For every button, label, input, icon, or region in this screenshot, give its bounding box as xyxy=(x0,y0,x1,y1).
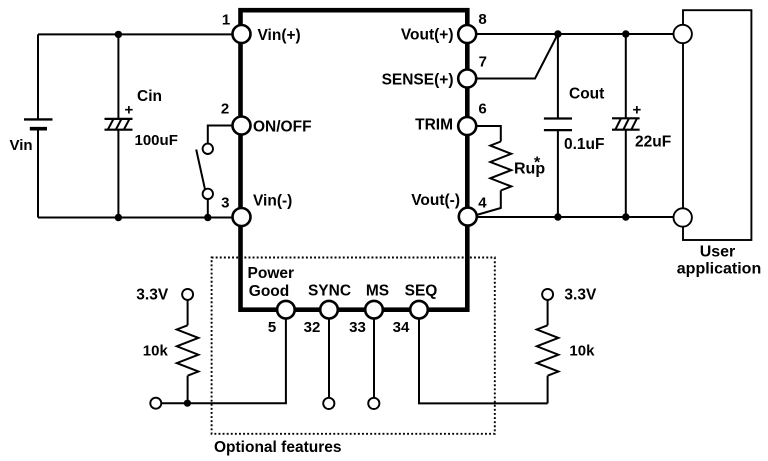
terminal Power Good output xyxy=(150,398,161,409)
capacitor Cout xyxy=(544,119,572,131)
pin 5 Power Good xyxy=(277,301,295,319)
node junction Cin top xyxy=(115,31,122,38)
label Power Good xyxy=(248,265,295,300)
node junction Cout top xyxy=(554,30,561,37)
wire battery bottom segment xyxy=(37,129,39,218)
terminal user application Vout+ xyxy=(674,25,692,43)
pin 6 TRIM xyxy=(458,117,476,135)
svg-text:+: + xyxy=(125,102,134,119)
wire resistor left to junction xyxy=(187,376,189,404)
label Optional features xyxy=(214,439,341,456)
label Vin xyxy=(10,137,33,154)
pin number 33 xyxy=(349,319,366,336)
wire 3.3V to resistor left xyxy=(187,300,189,325)
svg-text:2: 2 xyxy=(221,101,229,118)
terminal 3.3V right xyxy=(542,289,553,300)
wire switch to bottom rail xyxy=(207,199,209,217)
wire Cin bottom segment xyxy=(117,130,119,218)
optional features dashed box xyxy=(212,258,495,434)
module U1 outline xyxy=(241,10,468,310)
svg-text:Vin(+): Vin(+) xyxy=(258,27,301,44)
wire top rail left (Vin+ net) xyxy=(38,33,233,35)
wire bottom rail right (Vout- net) xyxy=(477,216,674,218)
wire ON/OFF to switch xyxy=(208,126,233,144)
label Vout(-) xyxy=(411,192,460,209)
node junction Cin bottom xyxy=(115,214,122,221)
pin number 4 xyxy=(478,195,487,212)
pin number 8 xyxy=(478,11,486,28)
resistor R2 10k right xyxy=(537,325,559,375)
label Cin xyxy=(137,88,162,105)
svg-text:100uF: 100uF xyxy=(135,132,178,149)
label Cout value 0.1uF xyxy=(564,136,604,153)
label Rup asterisk xyxy=(534,155,541,172)
label MS xyxy=(366,283,389,300)
svg-text:3.3V: 3.3V xyxy=(564,287,597,304)
wire 22uF bottom segment xyxy=(625,130,627,217)
label User xyxy=(700,243,736,260)
node junction pull-up left xyxy=(184,400,191,407)
svg-text:User: User xyxy=(700,243,736,260)
svg-text:Vout(-): Vout(-) xyxy=(411,192,460,209)
wire Cout top segment xyxy=(557,34,559,118)
terminal 3.3V left xyxy=(182,289,193,300)
pin number 1 xyxy=(222,11,230,28)
terminal SYNC xyxy=(323,398,334,409)
wire Rup to pin 4 xyxy=(477,191,501,216)
label Vout(+) xyxy=(401,27,454,44)
svg-text:34: 34 xyxy=(393,319,410,336)
svg-text:Cout: Cout xyxy=(569,86,604,103)
svg-text:32: 32 xyxy=(304,319,321,336)
svg-text:Good: Good xyxy=(249,283,289,300)
svg-text:3: 3 xyxy=(221,194,229,211)
svg-text:Cin: Cin xyxy=(137,88,162,105)
wire Cout bottom segment xyxy=(557,130,559,217)
label 10k left xyxy=(143,343,169,360)
pin number 34 xyxy=(393,319,410,336)
pin number 2 xyxy=(221,101,229,118)
wire battery top segment xyxy=(37,34,39,119)
wire 3.3V to resistor right xyxy=(547,300,549,325)
pin number 32 xyxy=(304,319,321,336)
svg-text:7: 7 xyxy=(479,54,487,71)
node junction Cout bottom xyxy=(554,213,561,220)
svg-text:TRIM: TRIM xyxy=(415,117,453,134)
pin number 7 xyxy=(479,54,487,71)
pin 2 ON/OFF xyxy=(233,117,251,135)
pin number 6 xyxy=(478,101,486,118)
svg-text:Rup: Rup xyxy=(514,161,545,178)
label Rup xyxy=(514,161,545,178)
svg-text:4: 4 xyxy=(478,195,487,212)
pin 1 Vin(+) xyxy=(233,25,251,43)
label 22uF plus sign xyxy=(633,102,642,119)
label SYNC xyxy=(308,283,351,300)
label Cin value 100uF xyxy=(135,132,178,149)
svg-text:Vin(-): Vin(-) xyxy=(253,193,292,210)
label Cout xyxy=(569,86,604,103)
label ON/OFF xyxy=(253,119,312,136)
wire Cin top segment xyxy=(117,34,119,119)
svg-text:Power: Power xyxy=(248,265,295,282)
svg-text:0.1uF: 0.1uF xyxy=(564,136,604,153)
pin 8 Vout(+) xyxy=(458,25,476,43)
svg-text:Optional features: Optional features xyxy=(214,439,341,456)
label SENSE(+) xyxy=(382,72,454,89)
label Vin(+) xyxy=(258,27,301,44)
wire resistor right to SEQ rail xyxy=(547,376,549,404)
wire bottom rail left (Vin- net) xyxy=(38,217,233,219)
wire TRIM to Rup xyxy=(476,126,501,142)
wire Power Good to bottom xyxy=(161,318,286,403)
svg-text:SEQ: SEQ xyxy=(405,283,438,300)
node junction switch bottom xyxy=(204,214,211,221)
svg-text:+: + xyxy=(633,102,642,119)
battery Vin source xyxy=(24,119,53,128)
label TRIM xyxy=(415,117,453,134)
svg-text:MS: MS xyxy=(366,283,389,300)
svg-text:33: 33 xyxy=(349,319,366,336)
wire SENSE(+) to Vout+ node xyxy=(476,34,558,79)
wire SYNC down xyxy=(328,318,330,398)
svg-text:SENSE(+): SENSE(+) xyxy=(382,72,454,89)
svg-text:application: application xyxy=(677,261,761,278)
pin 33 MS xyxy=(365,301,383,319)
user application box xyxy=(683,10,751,240)
resistor R1 10k left xyxy=(177,325,199,375)
pin number 5 xyxy=(268,319,276,336)
svg-text:10k: 10k xyxy=(143,343,169,360)
wire top rail right (Vout+ net) xyxy=(476,33,674,35)
label 3.3V right xyxy=(564,287,597,304)
svg-text:*: * xyxy=(534,155,541,172)
node junction 22uF top xyxy=(622,30,629,37)
label 22uF value xyxy=(635,134,671,151)
svg-text:8: 8 xyxy=(478,11,486,28)
label Cin plus sign xyxy=(125,102,134,119)
switch S1 xyxy=(196,144,213,199)
svg-text:1: 1 xyxy=(222,11,230,28)
wire MS down xyxy=(373,318,375,398)
pin 34 SEQ xyxy=(410,301,428,319)
svg-text:Vin: Vin xyxy=(10,137,33,154)
pin number 3 xyxy=(221,194,229,211)
pin 32 SYNC xyxy=(320,301,338,319)
label Vin(-) xyxy=(253,193,292,210)
label 3.3V left xyxy=(136,287,169,304)
pin 4 Vout(-) xyxy=(459,208,477,226)
terminal MS xyxy=(368,398,379,409)
label application xyxy=(677,261,761,278)
svg-text:10k: 10k xyxy=(569,343,595,360)
svg-text:Vout(+): Vout(+) xyxy=(401,27,454,44)
svg-text:SYNC: SYNC xyxy=(308,283,351,300)
svg-text:3.3V: 3.3V xyxy=(136,287,169,304)
resistor Rup xyxy=(490,142,511,191)
label SEQ xyxy=(405,283,438,300)
svg-text:6: 6 xyxy=(478,101,486,118)
wire 22uF top segment xyxy=(625,34,627,118)
pin 3 Vin(-) xyxy=(233,208,251,226)
capacitor C22 (electrolytic 22uF) xyxy=(612,118,640,129)
capacitor Cin (electrolytic) xyxy=(105,119,133,130)
svg-text:5: 5 xyxy=(268,319,276,336)
terminal user application Vout- xyxy=(674,208,692,226)
label 10k right xyxy=(569,343,595,360)
svg-text:22uF: 22uF xyxy=(635,134,671,151)
wire SEQ to resistor right xyxy=(419,318,548,403)
svg-text:ON/OFF: ON/OFF xyxy=(253,119,312,136)
pin 7 SENSE(+) xyxy=(458,70,476,88)
node junction 22uF bottom xyxy=(622,213,629,220)
